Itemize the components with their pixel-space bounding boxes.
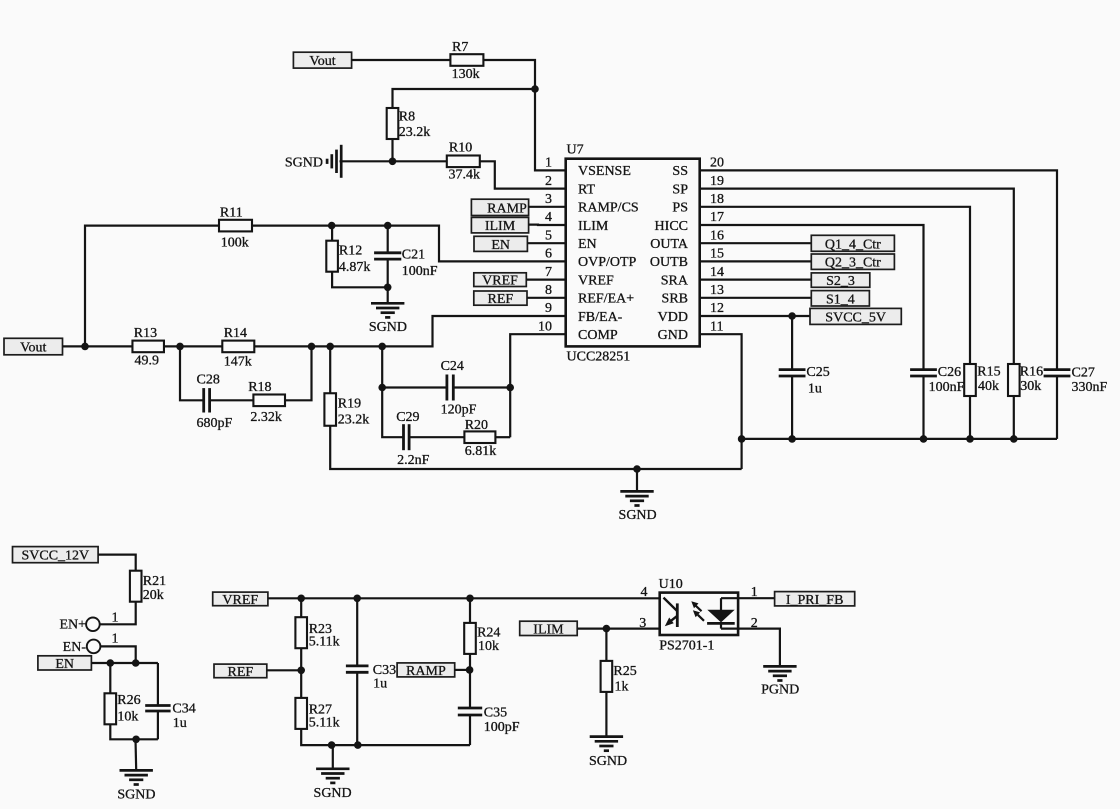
net label ILIM (bottom) — [520, 621, 578, 637]
pin 3 name/number RAMP/CS — [545, 192, 639, 216]
svg-text:23.2k: 23.2k — [338, 413, 370, 428]
wire C29 to R20 — [409, 436, 464, 438]
svg-text:VREF: VREF — [578, 273, 614, 288]
capacitor C24 120pF — [441, 359, 477, 418]
junction R15 on rail — [966, 435, 974, 443]
junction RAMP node — [466, 666, 474, 674]
svg-text:20: 20 — [710, 156, 724, 171]
wire lower rail to SGND — [636, 469, 638, 491]
wire R24 to C35 — [469, 654, 471, 709]
svg-text:HICC: HICC — [655, 219, 688, 234]
svg-text:R25: R25 — [613, 664, 636, 679]
ground SGND under C34 — [117, 770, 155, 802]
ground SGND under divider — [314, 769, 352, 801]
resistor R18 2.32k — [248, 380, 285, 425]
svg-text:49.9: 49.9 — [135, 353, 160, 368]
wire C21 bottom to ground — [387, 259, 389, 303]
wire R18 up to node — [285, 346, 312, 400]
ground SGND (left of R8) — [285, 145, 341, 178]
capacitor C28 680pF — [197, 372, 233, 431]
resistor R14 147k — [222, 326, 254, 369]
svg-text:R14: R14 — [224, 326, 247, 341]
pin 12 name/number VDD — [658, 301, 724, 325]
wire C27 bottom — [1056, 376, 1058, 439]
svg-text:1: 1 — [545, 156, 552, 171]
junction EN- entry — [132, 659, 140, 667]
svg-text:3: 3 — [639, 616, 646, 631]
svg-text:VREF: VREF — [482, 274, 518, 289]
resistor R10 37.4k — [447, 141, 480, 183]
svg-text:S1_4: S1_4 — [826, 292, 855, 307]
svg-text:VSENSE: VSENSE — [578, 164, 631, 179]
svg-text:REF: REF — [488, 292, 514, 307]
wire SRB pin 13 — [700, 297, 812, 299]
svg-text:SRB: SRB — [662, 292, 688, 307]
capacitor C21 100nF — [374, 248, 438, 279]
junction EN ground node — [132, 736, 140, 744]
capacitor C26 100nF — [910, 365, 965, 395]
svg-text:8: 8 — [545, 283, 552, 298]
pin 10 name/number COMP — [538, 319, 618, 343]
svg-text:1: 1 — [112, 610, 119, 625]
svg-text:OUTB: OUTB — [650, 255, 688, 270]
wire R26 bottom — [110, 724, 158, 739]
junction GND/decoupling rail — [738, 435, 746, 443]
wire C26 bottom — [922, 376, 924, 439]
resistor R23 5.11k — [295, 617, 339, 649]
net label S2_3 — [811, 273, 870, 289]
pin 15 name/number OUTB — [650, 247, 724, 271]
svg-text:UCC28251: UCC28251 — [567, 350, 631, 365]
svg-text:U7: U7 — [567, 143, 584, 158]
junction Vout/R11 branch — [81, 343, 89, 351]
svg-text:23.2k: 23.2k — [399, 125, 431, 140]
svg-text:PGND: PGND — [761, 683, 799, 698]
wire OUTA pin 16 — [700, 242, 812, 244]
wire VREF net line — [268, 597, 660, 599]
junction REF node — [297, 667, 305, 675]
svg-text:120pF: 120pF — [441, 402, 477, 417]
wire OUTB pin 15 — [700, 260, 812, 262]
svg-text:5.11k: 5.11k — [309, 635, 340, 650]
wire EN- to node — [101, 646, 136, 663]
light arrows of U10 — [691, 601, 704, 621]
connector pin EN- — [63, 632, 119, 655]
wire divider ground stem — [332, 745, 334, 769]
resistor R21 20k — [130, 571, 166, 603]
net label ILIM (pin 4) — [471, 217, 528, 234]
resistor R13 49.9 — [132, 326, 164, 369]
wire R19 bottom to rail — [330, 426, 741, 469]
wire SVCC_12V to R21 — [98, 555, 136, 571]
wire R26 stubs — [109, 663, 111, 694]
svg-text:GND: GND — [658, 328, 688, 343]
svg-text:SVCC_12V: SVCC_12V — [21, 549, 89, 564]
junction R19 top — [326, 343, 334, 351]
wire SRA pin 14 — [700, 279, 812, 281]
svg-text:1u: 1u — [373, 677, 387, 692]
junction C24 branch top — [378, 343, 386, 351]
junction C21/R12 bottom — [384, 284, 392, 292]
svg-text:PS: PS — [672, 201, 688, 216]
wire REF to R27 — [267, 669, 301, 671]
wire HICC pin 17 to C26 — [700, 225, 924, 369]
wire COMP pin 10 down — [510, 334, 566, 437]
pin 8 name/number REF/EA+ — [545, 283, 634, 307]
svg-text:10k: 10k — [117, 709, 138, 724]
junction R26 top — [107, 659, 115, 667]
resistor R15 40k — [964, 364, 1000, 396]
svg-text:Vout: Vout — [309, 54, 335, 69]
pin 18 name/number PS — [672, 192, 724, 216]
wire R8 to SGND rail — [391, 139, 393, 161]
wire R8 top branch — [393, 89, 536, 108]
junction C25 on rail — [788, 435, 796, 443]
svg-text:OVP/OTP: OVP/OTP — [578, 255, 637, 270]
wire R23 to REF node — [300, 648, 302, 670]
ground PGND — [761, 666, 799, 697]
svg-text:REF/EA+: REF/EA+ — [578, 292, 634, 307]
svg-text:RAMP: RAMP — [406, 664, 446, 679]
ground SGND under R25 — [589, 737, 627, 769]
resistor R26 10k — [105, 693, 141, 724]
wire decoupling rail — [742, 438, 1057, 440]
resistor R19 23.2k — [324, 393, 369, 427]
net label SVCC_12V — [13, 547, 99, 564]
junction R18 return — [308, 343, 316, 351]
svg-text:RAMP/CS: RAMP/CS — [578, 201, 639, 216]
capacitor C33 1u — [346, 663, 396, 692]
svg-text:R24: R24 — [477, 625, 500, 640]
junction R13/R14/C28 — [176, 343, 184, 351]
wire C28 branch down — [180, 346, 204, 400]
wire R24 top stub — [469, 598, 471, 623]
wire C24 right — [453, 386, 510, 388]
junction C26 on rail — [920, 435, 928, 443]
wire R12 top stub — [331, 226, 333, 241]
wire R21 to EN+ pin — [100, 602, 136, 625]
wire VDD pin 12 — [700, 315, 810, 317]
svg-text:2.32k: 2.32k — [250, 410, 282, 425]
wire EN node line — [91, 662, 157, 664]
wire R12 bottom to C21 bottom — [332, 272, 388, 287]
wire Vout to R13 — [63, 345, 133, 347]
svg-text:R21: R21 — [143, 574, 166, 589]
wire EN to pin 5 — [527, 242, 565, 244]
svg-text:40k: 40k — [978, 379, 999, 394]
svg-text:10: 10 — [538, 319, 552, 334]
junction R25 tap — [603, 625, 611, 633]
svg-text:ILIM: ILIM — [485, 219, 516, 234]
junction R12 top — [328, 222, 336, 230]
wire C34 bottom — [157, 711, 159, 739]
pin 20 name/number SS — [672, 156, 724, 180]
junction R7/R8/VSENSE node — [531, 85, 539, 93]
pin 5 name/number EN — [545, 228, 597, 252]
capacitor C34 1u — [145, 701, 196, 731]
pin 9 name/number FB/EA- — [545, 301, 623, 325]
svg-text:1: 1 — [112, 632, 119, 647]
svg-text:1u: 1u — [173, 716, 187, 731]
optocoupler U10 PS2701-1 body — [639, 577, 758, 654]
wire R14 to FB/EA- pin 9 — [254, 316, 565, 346]
svg-text:C34: C34 — [172, 701, 195, 716]
svg-text:1k: 1k — [615, 680, 629, 695]
svg-text:R18: R18 — [248, 380, 271, 395]
svg-text:14: 14 — [710, 265, 724, 280]
svg-text:SRA: SRA — [661, 273, 689, 288]
svg-text:10k: 10k — [478, 639, 499, 654]
svg-text:SVCC_5V: SVCC_5V — [825, 310, 886, 325]
svg-text:3: 3 — [545, 192, 552, 207]
wire R19 top stub — [329, 346, 331, 393]
svg-text:C26: C26 — [938, 365, 961, 380]
resistor R27 5.11k — [295, 698, 339, 731]
net label VREF (pin 7) — [474, 273, 527, 289]
wire R27 top stub — [300, 670, 302, 698]
pin 4 name/number ILIM — [545, 210, 609, 234]
svg-text:680pF: 680pF — [197, 416, 233, 431]
svg-text:100k: 100k — [221, 236, 249, 251]
resistor R16 30k — [1008, 364, 1043, 396]
junction divider ground stem — [328, 741, 336, 749]
junction C33 bottom — [354, 741, 362, 749]
svg-text:EN: EN — [55, 657, 74, 672]
svg-text:SS: SS — [672, 164, 688, 179]
svg-text:VDD: VDD — [658, 310, 688, 325]
resistor R8 23.2k — [387, 108, 431, 140]
svg-text:SGND: SGND — [369, 320, 407, 335]
junction SGND stem — [633, 465, 641, 473]
svg-text:5.11k: 5.11k — [309, 716, 340, 731]
svg-text:VREF: VREF — [222, 593, 258, 608]
svg-text:4.87k: 4.87k — [339, 260, 371, 275]
svg-text:15: 15 — [710, 247, 724, 262]
svg-text:100nF: 100nF — [402, 264, 438, 279]
wire VREF to pin 7 — [526, 279, 565, 281]
wire R13 to R14 — [164, 345, 222, 347]
pin 16 name/number OUTA — [650, 228, 724, 252]
svg-text:SGND: SGND — [314, 786, 352, 801]
wire C33 bottom — [356, 672, 358, 745]
svg-text:6.81k: 6.81k — [465, 444, 497, 459]
svg-text:R10: R10 — [449, 141, 472, 156]
wire C25 top — [791, 316, 793, 370]
svg-text:R15: R15 — [977, 365, 1000, 380]
capacitor C25 1u — [779, 365, 830, 396]
svg-text:30k: 30k — [1020, 379, 1041, 394]
svg-text:PS2701-1: PS2701-1 — [659, 639, 714, 654]
wire C35 bottom — [469, 715, 471, 745]
svg-text:11: 11 — [710, 319, 723, 334]
wire C25 bottom — [791, 376, 793, 439]
resistor R12 4.87k — [326, 241, 370, 275]
wire SP pin 19 to R16 — [700, 189, 1014, 364]
wire SGND to R10 — [340, 160, 448, 162]
svg-text:SGND: SGND — [589, 754, 627, 769]
junction R8 bottom on ground wire — [389, 158, 397, 166]
wire C24 left — [382, 386, 447, 388]
svg-text:RAMP: RAMP — [487, 201, 527, 216]
net label Vout (left) — [4, 338, 63, 355]
svg-text:5: 5 — [545, 228, 552, 243]
svg-text:C25: C25 — [806, 365, 829, 380]
svg-text:R26: R26 — [117, 693, 140, 708]
svg-text:R16: R16 — [1020, 365, 1043, 380]
net label Q2_3_Ctr — [811, 254, 894, 271]
photodiode of U10 — [707, 598, 738, 628]
svg-text:R13: R13 — [134, 326, 157, 341]
wire U10 pin 2 to PGND — [738, 629, 780, 667]
pin 2 name/number RT — [545, 174, 595, 198]
pin 17 name/number HICC — [655, 210, 724, 234]
svg-text:100pF: 100pF — [484, 720, 520, 735]
svg-text:R7: R7 — [452, 40, 468, 55]
svg-text:SGND: SGND — [117, 788, 155, 803]
ground SGND under rail — [619, 491, 657, 523]
net label REF (pin 8) — [474, 291, 527, 307]
junction C24 right — [506, 384, 514, 392]
svg-text:18: 18 — [710, 192, 724, 207]
resistor R24 10k — [464, 623, 500, 654]
net label Q1_4_Ctr — [811, 235, 894, 252]
junction R24 top — [466, 595, 474, 603]
svg-text:R11: R11 — [220, 206, 243, 221]
svg-text:2.2nF: 2.2nF — [397, 453, 430, 468]
op-amp controller IC U7 UCC28251 body — [566, 143, 700, 365]
svg-text:6: 6 — [545, 247, 552, 262]
svg-text:20k: 20k — [143, 588, 164, 603]
svg-text:COMP: COMP — [578, 328, 618, 343]
net label EN (bottom) — [38, 656, 92, 672]
wire Vout to R7 — [352, 59, 451, 61]
wire R10 to RT pin 2 — [480, 161, 566, 188]
svg-text:Q2_3_Ctr: Q2_3_Ctr — [825, 256, 881, 271]
svg-text:7: 7 — [545, 265, 552, 280]
svg-text:37.4k: 37.4k — [449, 168, 481, 183]
junction C33 top — [353, 595, 361, 603]
junction C24 left — [378, 384, 386, 392]
svg-text:R19: R19 — [338, 396, 361, 411]
svg-text:16: 16 — [710, 228, 724, 243]
net label I_PRI_FB — [775, 592, 855, 608]
pin 1 name/number VSENSE — [545, 156, 631, 180]
wire R7 to VSENSE node — [483, 60, 566, 170]
svg-text:RT: RT — [578, 182, 595, 197]
wire R20 to right vertical — [495, 436, 510, 438]
net label VREF (bottom) — [213, 592, 268, 608]
wire U10 pin 1 to I_PRI_FB — [738, 597, 775, 599]
wire EN ground stem — [134, 739, 137, 770]
net label REF (bottom) — [214, 664, 267, 680]
svg-text:147k: 147k — [224, 354, 252, 369]
wire C21 top stub — [387, 226, 389, 253]
junction R23 top — [297, 595, 305, 603]
svg-text:R12: R12 — [339, 244, 362, 259]
svg-text:13: 13 — [710, 283, 724, 298]
ground SGND under C21 — [369, 303, 407, 335]
pin 13 name/number SRB — [662, 283, 724, 307]
svg-text:EN: EN — [578, 237, 597, 252]
svg-text:ILIM: ILIM — [533, 622, 564, 637]
junction C21 top — [384, 222, 392, 230]
wire PS pin 18 to R15 — [700, 207, 970, 364]
wire C28 to R18 — [210, 399, 254, 401]
pin 11 name/number GND — [658, 319, 724, 343]
svg-text:FB/EA-: FB/EA- — [578, 310, 623, 325]
svg-text:OUTA: OUTA — [650, 237, 689, 252]
svg-text:C27: C27 — [1072, 365, 1095, 380]
svg-text:4: 4 — [545, 210, 552, 225]
pin 6 name/number OVP/OTP — [545, 247, 637, 271]
pin 7 name/number VREF — [545, 265, 614, 289]
svg-text:130k: 130k — [452, 67, 480, 82]
pin 19 name/number SP — [672, 174, 724, 198]
svg-text:EN+: EN+ — [59, 618, 86, 633]
wire R11 to OVP/OTP pin 6 — [253, 226, 566, 262]
net label RAMP (pin 3) — [471, 199, 528, 216]
svg-text:Vout: Vout — [20, 341, 46, 356]
net label RAMP (bottom) — [397, 663, 455, 679]
net label EN (pin 5) — [474, 236, 527, 253]
wire ILIM to pin 4 — [529, 224, 566, 227]
svg-text:330nF: 330nF — [1072, 380, 1108, 395]
svg-text:Q1_4_Ctr: Q1_4_Ctr — [825, 237, 881, 252]
svg-text:C28: C28 — [197, 372, 220, 387]
svg-text:C29: C29 — [396, 410, 419, 425]
svg-text:R8: R8 — [399, 110, 415, 125]
wire RAMP to pin 3 — [529, 206, 566, 208]
svg-text:EN-: EN- — [63, 640, 87, 655]
svg-text:C21: C21 — [402, 248, 425, 263]
wire ILIM to U10 pin 3 — [577, 627, 660, 629]
svg-text:C24: C24 — [441, 359, 464, 374]
svg-text:4: 4 — [641, 585, 648, 600]
wire R25 to ground — [605, 692, 607, 737]
junction R16 on rail — [1010, 435, 1018, 443]
svg-text:9: 9 — [545, 301, 552, 316]
wire R27 bottom — [301, 729, 470, 745]
svg-text:U10: U10 — [659, 577, 683, 592]
resistor R7 130k — [450, 40, 483, 82]
svg-text:17: 17 — [710, 210, 724, 225]
junction C25 tap on VDD — [788, 312, 796, 320]
wire SS pin 20 to C27 — [700, 170, 1057, 369]
wire R11 node vertical from Vout — [85, 226, 219, 347]
resistor R11 100k — [219, 206, 252, 251]
pin 14 name/number SRA — [661, 265, 724, 289]
wire RAMP to R24 node — [455, 669, 470, 671]
wire R25 top stub — [605, 629, 607, 661]
wire REF to pin 8 — [527, 297, 566, 299]
net label SVCC_5V — [810, 308, 901, 325]
svg-text:SGND: SGND — [285, 156, 323, 171]
capacitor C29 2.2nF — [396, 410, 429, 468]
wire C24 net left vertical — [382, 346, 403, 437]
svg-text:ILIM: ILIM — [578, 219, 609, 234]
svg-text:I_PRI_FB: I_PRI_FB — [786, 593, 844, 608]
svg-text:R20: R20 — [465, 418, 488, 433]
wire R16 bottom — [1013, 396, 1015, 439]
svg-text:SGND: SGND — [619, 508, 657, 523]
svg-text:REF: REF — [228, 665, 254, 680]
net label Vout (top) — [293, 52, 351, 69]
LED of U10 — [664, 598, 678, 627]
wire C33 top — [356, 598, 358, 666]
svg-text:19: 19 — [710, 174, 724, 189]
svg-text:SP: SP — [672, 182, 688, 197]
svg-text:S2_3: S2_3 — [826, 274, 855, 289]
